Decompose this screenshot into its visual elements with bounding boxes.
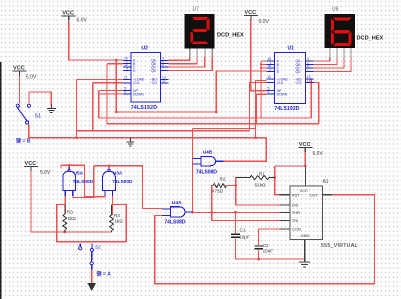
wire U4A in1 from latch Q (142, 208, 162, 210)
wire R1 right to VCC5 and RST (269, 177, 275, 179)
svg-text:D: D (133, 69, 136, 73)
wire U1.QD to U6 pin4 (313, 57, 351, 71)
wire U2.UP DOWN legs to L2 (99, 90, 123, 92)
wire 555 OUT feedback loop (155, 195, 375, 284)
wire 555 VCC black (304, 166, 306, 186)
svg-text:74LS00D: 74LS00D (112, 179, 133, 185)
svg-text:12: 12 (162, 79, 166, 83)
wire U1.D drop to L1 (216, 71, 266, 112)
svg-text:DOWN: DOWN (277, 93, 288, 97)
svg-text:C2: C2 (263, 243, 269, 248)
svg-text:TRI: TRI (292, 218, 298, 223)
wire latch U3A.out to U4A.in1 (109, 166, 142, 209)
svg-text:U1: U1 (288, 46, 295, 52)
vcc V2 (13, 65, 27, 75)
and U4A (162, 200, 193, 225)
wire U5A.out left nub (60, 165, 62, 168)
svg-text:~CO: ~CO (295, 81, 302, 85)
svg-text:D: D (277, 70, 280, 74)
svg-text:U4A: U4A (172, 200, 182, 206)
svg-text:5.0V: 5.0V (26, 75, 37, 81)
wire R2 left leg to THR (212, 186, 214, 213)
svg-text:555_VIRTUAL: 555_VIRTUAL (321, 243, 358, 249)
wire clockline right leg to U1.CLK (250, 83, 267, 131)
counter U1 74LS192D (266, 46, 313, 113)
wire U1.DOWN branch (257, 94, 267, 124)
wire U3A.in2 down to R4 and right leg (111, 191, 113, 216)
timer 555 A1 (280, 179, 358, 249)
svg-text:OUT: OUT (310, 193, 319, 198)
svg-text:U6: U6 (332, 7, 339, 13)
svg-text:DOWN: DOWN (133, 92, 144, 96)
wire L3 right leg to U1 CO (305, 83, 319, 124)
wire R2 right to R1 left and DIS (226, 178, 250, 186)
wire U2.A junction down to L1 (115, 60, 117, 112)
svg-text:THR: THR (292, 210, 300, 215)
ground G1 (47, 105, 56, 113)
wire S1 right throw to ground G1 (29, 92, 51, 106)
wire U2.QC to U7 pin3 (168, 57, 205, 67)
svg-text:U2: U2 (142, 46, 149, 52)
and U4B (193, 150, 224, 176)
wire S2 to arrow ground (91, 270, 93, 285)
svg-text:74LS08D: 74LS08D (196, 169, 218, 175)
svg-text:CON: CON (292, 227, 301, 232)
resistor R3 vertical (63, 204, 76, 232)
vcc V1 (62, 11, 76, 21)
wire latch U3A.out nub (108, 166, 110, 170)
svg-text:11: 11 (124, 75, 128, 79)
wire THR to TRI link (212, 212, 282, 220)
wire R3 bottom stub (64, 230, 66, 232)
svg-text:R2: R2 (220, 176, 226, 181)
svg-text:U5A: U5A (74, 171, 84, 177)
svg-text:10nF: 10nF (263, 249, 274, 254)
svg-text:VCC: VCC (300, 188, 309, 193)
wire latch U5A.out crossing to U3A.in1 (68, 165, 70, 170)
wire VCC3 to U1.UP (251, 19, 267, 91)
nand U3A vertical (103, 167, 133, 196)
svg-text:DCD_HEX: DCD_HEX (357, 36, 384, 42)
display U6 (325, 7, 384, 58)
svg-text:键 = B: 键 = B (15, 138, 31, 145)
svg-text:R4: R4 (114, 213, 120, 218)
svg-text:10μF: 10μF (239, 235, 250, 240)
svg-text:7: 7 (162, 66, 164, 70)
counter U2 74LS192D (123, 46, 168, 112)
wire CON to C2 (259, 229, 280, 245)
wire U2.QA to display U7 pin1 (168, 57, 189, 60)
wire U2.CLK to clockline (93, 82, 123, 84)
svg-text:11: 11 (267, 75, 271, 79)
wire latch cross U3A.out to U5A.in2 (94, 165, 109, 167)
arrow ground under S2 (87, 283, 96, 291)
wire U1.QB to U6 pin2 (313, 57, 337, 64)
svg-text:1kΩ: 1kΩ (68, 216, 77, 221)
wire U1.LOAD leg down to bus (255, 81, 266, 138)
wire C1 top to THR line (235, 212, 237, 233)
svg-text:QD: QD (151, 69, 157, 73)
vcc V3 (244, 10, 258, 20)
svg-text:9: 9 (269, 68, 271, 72)
wire U2.DOWN to L2 (99, 93, 123, 95)
svg-text:5.0V: 5.0V (259, 19, 270, 25)
svg-text:74LS192D: 74LS192D (131, 105, 157, 111)
svg-text:1kΩ: 1kΩ (115, 219, 124, 224)
capacitor C2 (254, 243, 273, 254)
svg-text:C1: C1 (240, 228, 246, 233)
svg-text:74LS08D: 74LS08D (164, 219, 186, 225)
ground G2 (127, 138, 135, 146)
svg-text:CLK: CLK (277, 81, 284, 85)
svg-text:R3: R3 (67, 210, 73, 215)
wire C1 bottom to gnd line (236, 239, 305, 260)
wire U2.QD to U7 pin4 (168, 57, 212, 70)
svg-text:U4B: U4B (203, 150, 213, 156)
svg-text:4: 4 (124, 90, 126, 94)
svg-text:473Ω: 473Ω (212, 188, 224, 193)
wire U4B out up leg joining bus end (224, 138, 267, 162)
wire U1.B branch (261, 64, 266, 66)
capacitor C1 (231, 228, 250, 240)
svg-text:12: 12 (307, 79, 311, 83)
svg-text:DCD_HEX: DCD_HEX (217, 33, 244, 39)
svg-text:QD: QD (296, 70, 302, 74)
vcc V4 (24, 161, 38, 171)
wire VCC1 to U2.A (69, 21, 123, 60)
wire U5A.in1 down to R3 and left leg (64, 191, 66, 215)
nand U5A vertical (63, 167, 94, 196)
wire U2.LOAD down to main bus (77, 78, 124, 80)
svg-text:U7: U7 (193, 7, 200, 13)
svg-text:5.0V: 5.0V (313, 151, 324, 157)
wire main bus from switch S1 (29, 124, 267, 137)
content layers appended below (20, 19, 375, 285)
svg-text:R1: R1 (259, 171, 265, 176)
svg-text:5.0V: 5.0V (40, 170, 51, 176)
wire U2.B to L3 (107, 63, 123, 65)
svg-text:RST: RST (292, 193, 301, 198)
svg-text:74LS00D: 74LS00D (73, 179, 94, 185)
ground G3 (299, 239, 310, 266)
wire U4A output riser (185, 211, 193, 213)
svg-text:4: 4 (267, 90, 269, 94)
wire U2.QB to U7 pin2 (168, 57, 197, 64)
wire U1.QA to display U6 pin1 (313, 57, 330, 61)
svg-text:A1: A1 (323, 179, 329, 185)
svg-text:51kΩ: 51kΩ (255, 182, 266, 187)
svg-text:CLK: CLK (133, 81, 140, 85)
wire VCC4 to resistor bottoms (31, 171, 112, 232)
wire S2 bottom rail (57, 241, 127, 243)
wire U1.QC to U6 pin3 (313, 57, 344, 68)
svg-text:U3A: U3A (113, 171, 123, 177)
wire THR net top line to U1 LOAD leg (193, 127, 256, 129)
wire VCC5 stem (304, 151, 306, 166)
resistor R2 horizontal (212, 176, 227, 193)
svg-text:74LS192D: 74LS192D (274, 106, 299, 112)
wire C2 bottom (258, 250, 260, 259)
wire L2 right leg to U1 BO (305, 79, 311, 118)
svg-text:~CO: ~CO (150, 81, 157, 85)
switch S2 (79, 244, 94, 270)
display U7 (184, 7, 244, 58)
svg-text:5.0V: 5.0V (77, 18, 88, 24)
wire L1 nested line (116, 111, 216, 113)
switch S1 (16, 104, 30, 124)
svg-text:9: 9 (126, 66, 128, 70)
wire U4B inputs from riser (193, 157, 201, 159)
svg-text:DIS: DIS (292, 203, 299, 208)
svg-text:S1: S1 (35, 114, 42, 120)
svg-text:键 = A: 键 = A (96, 271, 112, 278)
wire R4 bottom stub (111, 231, 113, 232)
svg-text:S2: S2 (95, 245, 101, 250)
resistor R1 horizontal (236, 171, 275, 187)
svg-text:7: 7 (307, 68, 309, 72)
wire VCC2 down to switch S1 (19, 75, 21, 104)
resistor R4 vertical (110, 205, 124, 232)
vcc V5 (298, 142, 312, 152)
left window border (0, 62, 1, 299)
svg-text:GND: GND (301, 233, 310, 238)
